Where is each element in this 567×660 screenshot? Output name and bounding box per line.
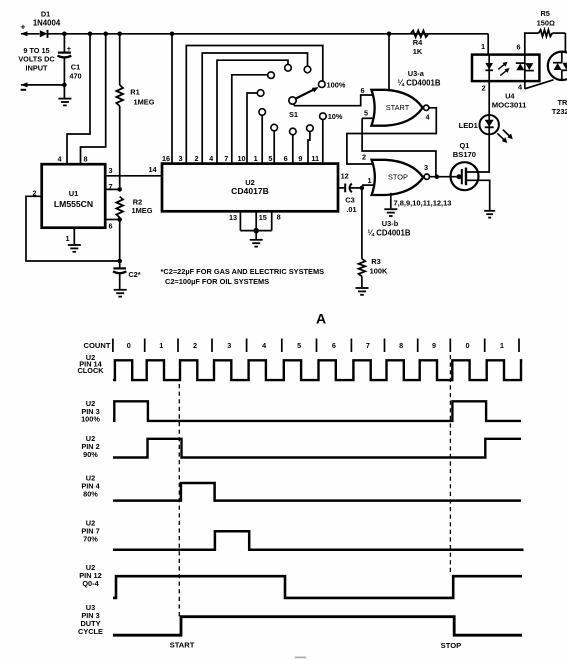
svg-text:STOP: STOP xyxy=(388,173,408,182)
svg-text:1: 1 xyxy=(500,341,504,350)
svg-text:1: 1 xyxy=(254,154,258,163)
svg-text:Q0-4: Q0-4 xyxy=(82,579,99,588)
svg-text:1MEG: 1MEG xyxy=(132,206,153,215)
svg-text:LED1: LED1 xyxy=(459,121,478,130)
wire Q1 drain to LED1 xyxy=(466,134,489,172)
wire U2 pin 6 to 30% contact xyxy=(292,135,294,164)
wire STOP output to Q1 gate xyxy=(430,174,459,179)
wire U1 pin1 to ground xyxy=(73,228,75,245)
wire STOP output to START input 5 xyxy=(362,118,436,176)
svg-text:70%: 70% xyxy=(83,534,98,543)
counter U2 CD4017B xyxy=(162,164,338,212)
waveform U3 pin 3 duty cycle xyxy=(113,617,522,636)
capacitor C1 470 (electrolytic) xyxy=(58,34,82,85)
wire R1 to pin7 (crosses clock line) xyxy=(119,106,121,189)
U4 internal LED xyxy=(485,55,493,82)
wire U2 pin 16 to rail xyxy=(171,34,173,164)
label U2 PIN 14 CLOCK xyxy=(77,353,104,375)
svg-text:80%: 80% xyxy=(83,490,98,499)
svg-text:1: 1 xyxy=(65,234,69,243)
capacitor C3 .01 xyxy=(345,184,362,215)
ground under R3 xyxy=(356,287,369,289)
svg-text:1: 1 xyxy=(481,42,485,51)
svg-text:C2=100µF FOR OIL SYSTEMS: C2=100µF FOR OIL SYSTEMS xyxy=(165,277,269,286)
ground under U1 pin 1 xyxy=(68,244,81,246)
waveform U2 pin 7 70% xyxy=(113,531,524,550)
svg-text:15: 15 xyxy=(259,213,267,222)
wire R5 to triac xyxy=(564,33,566,52)
svg-text:CYCLE: CYCLE xyxy=(78,627,103,636)
svg-text:2: 2 xyxy=(362,153,366,162)
svg-text:100K: 100K xyxy=(370,267,388,276)
svg-text:470: 470 xyxy=(69,72,81,81)
svg-text:6: 6 xyxy=(516,43,520,52)
svg-text:3: 3 xyxy=(108,166,112,175)
svg-text:9: 9 xyxy=(298,154,302,163)
wire S1 common to START input 6 xyxy=(294,95,373,106)
waveform U2 pin 2 90% xyxy=(113,439,521,458)
svg-text:12: 12 xyxy=(341,172,349,181)
wire U4 pin 6 to R5 xyxy=(525,33,539,55)
svg-text:C1: C1 xyxy=(71,63,80,72)
resistor R2 1MEG xyxy=(116,197,152,218)
svg-text:1K: 1K xyxy=(413,47,423,56)
svg-text:D1: D1 xyxy=(41,10,50,19)
svg-text:14: 14 xyxy=(148,165,157,174)
wire main V+ rail xyxy=(48,33,489,35)
svg-text:U1: U1 xyxy=(69,189,79,198)
svg-text:R1: R1 xyxy=(130,88,139,97)
svg-text:3: 3 xyxy=(424,163,428,172)
svg-text:100%: 100% xyxy=(327,80,346,89)
switch S1 contact 60% xyxy=(257,90,264,97)
svg-text:8: 8 xyxy=(399,341,403,350)
svg-text:0: 0 xyxy=(127,341,131,350)
svg-text:*C2=22µF FOR GAS AND ELECTRIC: *C2=22µF FOR GAS AND ELECTRIC SYSTEMS xyxy=(161,267,325,276)
count numbers 0-9 0 1 xyxy=(127,341,504,350)
wire U1 pin6 stub xyxy=(105,219,120,221)
waveform U2 pin 3 100% xyxy=(113,401,521,421)
svg-text:8: 8 xyxy=(277,213,281,222)
wire U2 pin 1 to 50% contact xyxy=(261,115,263,163)
svg-text:5: 5 xyxy=(364,109,368,118)
svg-text:1N4004: 1N4004 xyxy=(33,18,61,27)
svg-text:VOLTS DC: VOLTS DC xyxy=(18,55,55,64)
wire U2 pin 9 to 20% contact xyxy=(308,132,310,164)
wire rail to U4 pin 1 xyxy=(487,34,489,55)
svg-text:T2322: T2322 xyxy=(552,107,567,116)
wire U2 pins 13,15,8 to ground xyxy=(240,211,271,239)
switch S1 contact 50% xyxy=(259,109,266,116)
node V- input terminal (-) xyxy=(21,82,65,89)
svg-text:TR: TR xyxy=(558,98,567,107)
svg-text:2: 2 xyxy=(194,154,198,163)
junction pin7-R2 xyxy=(117,187,122,192)
svg-text:.01: .01 xyxy=(346,205,356,214)
wire U4 pin 4 to triac gate xyxy=(525,80,554,89)
label U2 PIN 4 80% xyxy=(81,474,100,499)
svg-text:7,8,9,10,11,12,13: 7,8,9,10,11,12,13 xyxy=(394,198,452,207)
svg-text:+: + xyxy=(21,22,26,32)
svg-text:CLOCK: CLOCK xyxy=(77,366,104,375)
wire U2 pin 2 to 90% contact xyxy=(202,53,307,164)
svg-text:9: 9 xyxy=(432,341,436,350)
svg-text:¼ CD4001B: ¼ CD4001B xyxy=(368,228,411,237)
svg-text:START: START xyxy=(386,103,410,112)
wire START pin 5 stub xyxy=(362,117,374,119)
svg-text:5: 5 xyxy=(268,154,272,163)
svg-text:R4: R4 xyxy=(413,38,423,47)
svg-text:BS170: BS170 xyxy=(453,150,476,159)
svg-text:U3-a: U3-a xyxy=(408,69,425,78)
svg-text:1MEG: 1MEG xyxy=(134,98,155,107)
wire Q1 source to ground xyxy=(466,180,490,210)
LED LED1 xyxy=(459,115,499,134)
junction rail-pin16 xyxy=(170,32,175,37)
svg-text:U4: U4 xyxy=(505,92,515,101)
ground under Q1 xyxy=(484,210,495,212)
switch S1 pivot xyxy=(289,97,296,104)
wire C1 to ground xyxy=(63,85,65,98)
svg-text:CD4017B: CD4017B xyxy=(231,186,269,196)
junction C1/V- wire xyxy=(62,83,67,88)
svg-text:1: 1 xyxy=(367,176,371,185)
svg-text:INPUT: INPUT xyxy=(26,64,48,73)
dashed line START marker xyxy=(178,384,180,617)
svg-text:C3: C3 xyxy=(345,195,354,204)
junction C3/R3/STOP input xyxy=(360,186,365,191)
gate U3-b STOP (NOR) xyxy=(372,160,430,195)
svg-text:Q1: Q1 xyxy=(459,141,469,150)
U4 internal triac xyxy=(516,55,534,82)
svg-text:100%: 100% xyxy=(81,414,100,423)
gate U3-a START (NOR) xyxy=(371,90,429,126)
resistor R5 150 ohm xyxy=(537,9,566,36)
ground under C1 xyxy=(58,98,71,100)
svg-text:7: 7 xyxy=(366,341,370,350)
switch S1 contact 100% xyxy=(319,81,326,88)
label U2 PIN 3 100% xyxy=(81,399,100,423)
svg-text:R3: R3 xyxy=(371,257,380,266)
svg-text:16: 16 xyxy=(162,154,170,163)
wire R2 to C2 xyxy=(119,218,121,262)
svg-text:1: 1 xyxy=(159,341,163,350)
waveform U2 pin 4 80% xyxy=(113,483,521,501)
svg-text:90%: 90% xyxy=(83,450,98,459)
svg-text:11: 11 xyxy=(311,154,319,163)
svg-text:C2*: C2* xyxy=(128,270,140,279)
switch S1 contact 40% xyxy=(271,124,278,131)
svg-text:5: 5 xyxy=(297,341,301,350)
triac TR T2322B xyxy=(548,52,567,116)
wire U4 pin 2 to LED1 xyxy=(488,81,490,115)
svg-text:2: 2 xyxy=(193,341,197,350)
label U3 PIN 3 DUTY CYCLE xyxy=(78,603,103,636)
wire U1 pin3 to U2 pin14 (555 out to clock) xyxy=(105,175,162,177)
svg-text:0: 0 xyxy=(465,341,469,350)
switch S1 contact 70% xyxy=(268,72,275,79)
wire U2 pin 10 to 60% contact xyxy=(247,93,257,164)
svg-text:3: 3 xyxy=(227,341,231,350)
svg-text:3: 3 xyxy=(178,154,182,163)
dashed line STOP marker xyxy=(449,355,451,576)
svg-text:LM555CN: LM555CN xyxy=(54,199,93,209)
wire U2 pin 7 to 70% contact xyxy=(232,75,268,164)
svg-text:S1: S1 xyxy=(289,110,298,119)
svg-text:COUNT: COUNT xyxy=(84,341,111,350)
ground U3 pins 7-13 xyxy=(384,208,397,210)
wire U1 pin2 to C2 node xyxy=(26,196,120,261)
svg-text:START: START xyxy=(170,641,195,650)
junction rail-R1 xyxy=(117,32,122,37)
ground under C2 xyxy=(114,289,127,291)
switch S1 contact 80% xyxy=(285,65,292,72)
wire U2 pin 12 stub xyxy=(338,187,344,189)
resistor R1 1MEG xyxy=(116,34,154,107)
svg-text:6: 6 xyxy=(332,341,336,350)
label 9 TO 15 VOLTS DC INPUT xyxy=(18,46,55,73)
wire STOP gate ground stem xyxy=(390,193,392,209)
svg-text:MOC3011: MOC3011 xyxy=(492,100,527,109)
wire rail junction to START gate xyxy=(388,34,390,89)
junction C2 node xyxy=(117,259,122,264)
label U2 PIN 2 90% xyxy=(81,434,99,459)
wire U2 pin 5 to 40% contact xyxy=(273,131,275,164)
svg-text:STOP: STOP xyxy=(441,641,462,650)
waveform U2 pin 12 Q0-4 xyxy=(113,576,522,598)
svg-text:2: 2 xyxy=(481,84,485,93)
optocoupler U4 MOC3011 box xyxy=(472,55,539,110)
junction rail-C1 xyxy=(62,32,67,37)
svg-text:6: 6 xyxy=(108,222,112,231)
junction rail-R4 xyxy=(387,32,392,37)
svg-text:13: 13 xyxy=(229,213,237,222)
svg-text:7: 7 xyxy=(224,154,228,163)
svg-text:6: 6 xyxy=(360,86,364,95)
wire STOP input 1 stub xyxy=(362,184,374,186)
wire rail to U1 pin 4 xyxy=(67,32,92,165)
node V+ input terminal (+) xyxy=(21,22,40,37)
resistor R4 1K xyxy=(411,31,429,57)
switch S1 contact 30% xyxy=(290,128,297,135)
svg-text:10%: 10% xyxy=(328,112,343,121)
op-amp U1 LM555CN timer xyxy=(42,164,105,228)
svg-text:6: 6 xyxy=(284,154,288,163)
capacitor C2 (electrolytic) xyxy=(113,261,141,289)
switch S1 contact 10% xyxy=(320,113,327,120)
switch S1 contact 90% xyxy=(304,66,311,73)
svg-text:¼ CD4001B: ¼ CD4001B xyxy=(398,78,441,87)
waveform U2 pin 14 clock xyxy=(113,360,522,380)
junction pin6-R2 xyxy=(117,217,122,222)
U4 internal light arrows xyxy=(498,62,509,76)
wire U2 pin 3 to 100% contact xyxy=(186,46,322,164)
wire rail to U1 pin 8 xyxy=(81,32,108,165)
switch S1 wiper arm xyxy=(296,87,319,99)
switch S1 contact 20% xyxy=(307,125,314,132)
note C2 values xyxy=(161,267,325,286)
wire U2 pin 4 to 80% contact xyxy=(217,60,288,163)
LED1 emission arrows xyxy=(497,130,513,143)
ground under U2 xyxy=(250,239,263,241)
count scale tick marks xyxy=(113,339,519,353)
label U2 PIN 12 Q0-4 xyxy=(79,563,101,588)
diode D1 1N4004 xyxy=(33,10,61,38)
svg-text:+: + xyxy=(67,44,72,53)
resistor R3 100K xyxy=(359,188,388,287)
wire U2 pin 11 to 10% contact xyxy=(322,120,324,164)
svg-text:8: 8 xyxy=(83,155,87,164)
page artifact mark xyxy=(295,656,306,658)
wire START output to STOP input 2 xyxy=(347,108,436,164)
svg-text:10: 10 xyxy=(237,154,245,163)
wire U1 pin7 stub xyxy=(105,188,120,190)
svg-text:U3-b: U3-b xyxy=(382,219,399,228)
label U2 PIN 7 70% xyxy=(81,518,99,543)
svg-text:R5: R5 xyxy=(540,9,549,18)
svg-text:150Ω: 150Ω xyxy=(537,18,555,27)
svg-text:A: A xyxy=(316,311,326,327)
transistor Q1 BS170 (MOSFET) xyxy=(451,141,479,190)
